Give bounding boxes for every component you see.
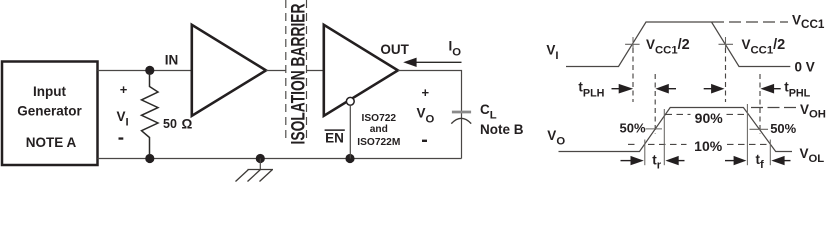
label - (V_O polarity) bbox=[422, 140, 427, 142]
waveform V_O trace bbox=[559, 108, 793, 152]
svg-text:ISOLATION BARRIER: ISOLATION BARRIER bbox=[287, 3, 309, 144]
cross mark V_I rising 50% bbox=[625, 37, 640, 52]
wire: bottom return rail bbox=[98, 158, 462, 160]
input generator box bbox=[2, 62, 98, 166]
tick V_O falling 10% bbox=[769, 140, 771, 166]
svg-text:EN: EN bbox=[325, 131, 344, 146]
dashed V_CC1 level line bbox=[712, 21, 788, 23]
ground (chassis) bbox=[259, 159, 261, 170]
buffer U1 (input side driver) bbox=[192, 25, 266, 116]
svg-text:+: + bbox=[422, 85, 430, 100]
wire: generator output to buffer input bbox=[98, 70, 191, 72]
isolation barrier dashed line left bbox=[285, 0, 287, 142]
arrow t_PHL pointing right bbox=[704, 88, 712, 90]
svg-text:50: 50 bbox=[163, 117, 177, 131]
dashed vline V_I falling 50% bbox=[725, 48, 727, 102]
arrow t_r pointing right bbox=[621, 160, 631, 162]
svg-text:ISO722: ISO722 bbox=[362, 113, 397, 124]
tick V_O rising 10% bbox=[644, 140, 646, 166]
tick V_O rising 90% bbox=[663, 109, 665, 165]
label - (V_I polarity) bbox=[119, 137, 124, 139]
svg-text:50%: 50% bbox=[770, 121, 796, 136]
buffer U2 ISO722 (output side) bbox=[324, 25, 398, 116]
arrow t_PLH pointing right bbox=[612, 88, 621, 90]
wire: OUT to load capacitor bbox=[398, 71, 462, 159]
wire: U1 output to isolation barrier bbox=[266, 70, 286, 72]
svg-text:+: + bbox=[120, 82, 128, 97]
isolation barrier dashed line right bbox=[306, 0, 308, 142]
dashed 90% level line bbox=[666, 113, 691, 115]
cross mark V_I falling 50% bbox=[719, 37, 734, 52]
svg-text:OUT: OUT bbox=[380, 42, 409, 57]
capacitor C_L top plate bbox=[452, 111, 471, 114]
svg-text:ISO722M: ISO722M bbox=[357, 137, 400, 148]
svg-text:and: and bbox=[370, 124, 388, 135]
svg-text:NOTE A: NOTE A bbox=[26, 135, 77, 150]
dashed V_OH level line bbox=[751, 107, 796, 109]
dashed vline V_I rising 50% bbox=[632, 48, 634, 102]
cross mark V_O rising 50% bbox=[646, 128, 663, 130]
wire: isolation barrier to U2 input bbox=[307, 70, 324, 72]
arrow t_f pointing right bbox=[725, 160, 734, 162]
pin label EN (with overbar) bbox=[325, 129, 345, 131]
arrow t_f pointing left bbox=[771, 156, 784, 165]
node: ground junction bbox=[256, 154, 265, 163]
node: resistor bottom junction bbox=[145, 154, 154, 163]
arrow t_r pointing left bbox=[665, 156, 678, 165]
svg-text:Generator: Generator bbox=[17, 104, 82, 119]
tick V_O falling 90% bbox=[746, 104, 748, 165]
dashed 10% level line bbox=[628, 143, 635, 145]
capacitor C_L bottom plate (curved) bbox=[451, 118, 471, 123]
svg-text:IN: IN bbox=[165, 53, 179, 68]
svg-text:50%: 50% bbox=[620, 121, 646, 136]
svg-text:0 V: 0 V bbox=[795, 59, 815, 74]
arrow V_O rising 50% pointing left bbox=[655, 84, 668, 94]
resistor R1 50 ohm bbox=[142, 73, 159, 155]
wire: EN stub bbox=[349, 105, 351, 158]
enable bubble on U2 bbox=[346, 97, 354, 105]
waveform V_I trace bbox=[566, 22, 790, 67]
node: EN junction bbox=[345, 154, 354, 163]
svg-text:Note B: Note B bbox=[480, 122, 524, 137]
node: resistor top junction bbox=[145, 66, 154, 75]
svg-text:Input: Input bbox=[33, 84, 66, 99]
svg-text:Ω: Ω bbox=[182, 117, 193, 132]
arrow V_O falling 50% pointing left bbox=[760, 84, 774, 94]
svg-text:10%: 10% bbox=[694, 138, 723, 154]
current arrow I_O bbox=[416, 61, 461, 63]
svg-text:90%: 90% bbox=[695, 110, 724, 126]
cross mark V_O falling 50% bbox=[750, 128, 769, 130]
dashed vline V_O rising 50% bbox=[654, 74, 656, 134]
dashed vline V_O falling 50% bbox=[759, 74, 761, 134]
